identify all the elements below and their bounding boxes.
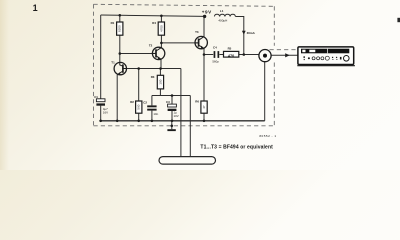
svg-text:R4: R4 <box>152 21 156 25</box>
svg-text:T3: T3 <box>195 30 199 34</box>
svg-text:100: 100 <box>158 79 162 84</box>
svg-text:T1: T1 <box>111 60 115 64</box>
svg-text:10n: 10n <box>153 112 158 116</box>
svg-text:560p: 560p <box>212 60 219 64</box>
svg-text:80552 - 1: 80552 - 1 <box>259 134 276 138</box>
svg-text:+9V: +9V <box>202 10 212 15</box>
svg-text:47: 47 <box>202 105 206 109</box>
svg-text:400µH: 400µH <box>218 18 227 22</box>
svg-text:10V: 10V <box>174 114 179 118</box>
svg-text:R5: R5 <box>228 47 232 51</box>
svg-text:R6: R6 <box>195 100 199 104</box>
svg-text:R1: R1 <box>111 21 115 25</box>
svg-text:C1: C1 <box>94 95 98 99</box>
svg-text:R3: R3 <box>151 75 155 79</box>
svg-text:4700: 4700 <box>159 25 163 32</box>
svg-text:T2: T2 <box>149 43 153 47</box>
svg-text:C3: C3 <box>166 100 170 104</box>
svg-text:1: 1 <box>33 3 38 13</box>
svg-text:T1...T3 = BF494 or equivalent: T1...T3 = BF494 or equivalent <box>200 144 273 150</box>
svg-text:470: 470 <box>228 54 234 58</box>
svg-text:L1: L1 <box>220 9 224 13</box>
svg-text:30mA: 30mA <box>247 31 256 35</box>
svg-text:R2: R2 <box>130 100 134 104</box>
svg-text:8200: 8200 <box>118 25 122 32</box>
svg-text:16V: 16V <box>103 111 108 115</box>
svg-text:C2: C2 <box>143 100 147 104</box>
svg-text:C4: C4 <box>213 46 217 50</box>
svg-text:560: 560 <box>137 104 141 109</box>
